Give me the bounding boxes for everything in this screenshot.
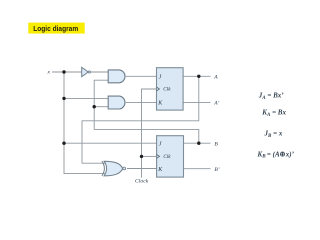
flip-flop U2 (B) xyxy=(157,136,184,177)
wire B branch to AND2 bottom input xyxy=(94,106,108,108)
wire x vertical bus with elbow to XNOR lower input xyxy=(64,72,106,174)
svg-text:Clock: Clock xyxy=(135,179,149,185)
XNOR gate (K_B = (A xor x)') xyxy=(102,161,126,176)
svg-text:Clk: Clk xyxy=(163,87,171,93)
wire x branch to JB input xyxy=(64,142,157,144)
wire inverter output to AND1 top input xyxy=(90,71,108,73)
node junction B to AND2 xyxy=(93,105,96,108)
node junction B output xyxy=(197,142,200,145)
node junction A output xyxy=(197,75,200,78)
svg-text:J: J xyxy=(159,142,162,148)
svg-text:A’: A’ xyxy=(213,100,219,106)
wire output B' xyxy=(184,168,211,170)
svg-text:JB = x: JB = x xyxy=(264,130,283,139)
svg-text:B: B xyxy=(214,141,218,147)
wire output A' xyxy=(183,101,210,103)
svg-text:KB= (Ax)’: KB= (Ax)’ xyxy=(257,150,295,159)
wire x input horizontal xyxy=(52,71,82,73)
svg-text:KA = Bx: KA = Bx xyxy=(261,108,286,117)
wire AND1 output to JA xyxy=(126,75,157,77)
svg-text:J: J xyxy=(159,75,162,81)
node junction x to JB xyxy=(62,142,65,145)
wire B feedback up to AND1 bottom input xyxy=(94,80,199,143)
wire clock branch to FFB clk xyxy=(142,155,157,157)
wire x branch to AND2 top input xyxy=(64,97,108,99)
wire output A xyxy=(183,75,210,77)
AND gate G1 (J_A = Bx') xyxy=(108,70,125,83)
AND gate G2 (K_A = Bx) xyxy=(108,96,125,109)
node junction on x wire xyxy=(62,70,65,73)
svg-text:JA = Bx’: JA = Bx’ xyxy=(258,91,285,100)
svg-text:x: x xyxy=(47,70,51,76)
svg-text:Logic diagram: Logic diagram xyxy=(33,24,78,33)
node junction clock to FFB xyxy=(140,155,143,158)
svg-text:Clk: Clk xyxy=(163,154,171,160)
equation xor symbol xyxy=(280,152,284,156)
wire AND2 output to KA xyxy=(126,101,157,103)
wire clock vertical to FFA clk xyxy=(142,89,157,178)
svg-text:B’: B’ xyxy=(214,167,219,173)
svg-text:A: A xyxy=(213,74,218,80)
node junction x to AND2 xyxy=(62,97,65,100)
flip-flop U1 (A) xyxy=(157,68,184,110)
wire A feedback to XNOR top input xyxy=(82,76,199,163)
wire XNOR output to KB xyxy=(127,168,157,170)
title label: Logic diagram xyxy=(28,23,84,34)
wire output B xyxy=(184,142,211,144)
inverter (NOT gate) xyxy=(82,67,91,76)
